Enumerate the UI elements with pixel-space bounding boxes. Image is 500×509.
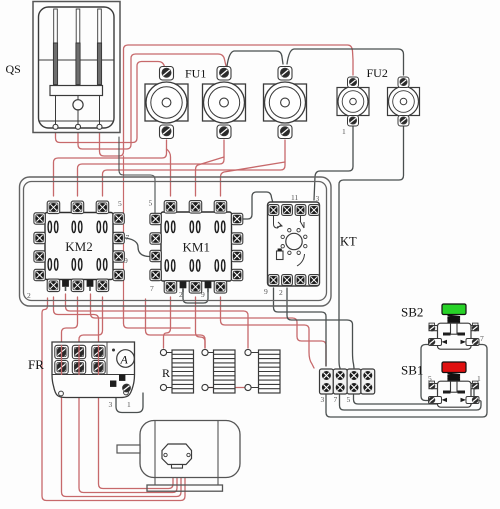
- motor shaft: [117, 445, 140, 453]
- KM2 bottom terminal 1: [47, 279, 60, 292]
- wire KT bottom 2 to XT strip3 (black): [287, 288, 354, 368]
- FR terminal top 3: [92, 345, 105, 358]
- KM2 label: [65, 239, 92, 254]
- wire KM2 bottom 3 to FR col3 (red): [79, 297, 103, 345]
- wire branch to KM1 top 2 (red): [196, 157, 225, 196]
- resistor R3: [245, 349, 280, 393]
- wire XT strip1 to SB2 lower right (black): [326, 345, 487, 418]
- wire long red vertical into band (red): [124, 305, 191, 328]
- terminal block XT: [320, 369, 375, 394]
- enclosure outer: [20, 177, 332, 306]
- svg-text:FR: FR: [28, 357, 44, 372]
- FU2 pin label 1: [342, 127, 346, 136]
- wire FU1-3 bottom to KM2 top 3 (red): [103, 140, 286, 196]
- SB1 lower contact right: [461, 397, 480, 404]
- svg-text:A: A: [120, 353, 129, 367]
- wire KM1 bottom 1 to R1 top (red): [164, 297, 171, 348]
- XT pin label 7: [334, 395, 338, 404]
- KM1 right terminal 4: [231, 269, 242, 280]
- KM1 right terminal 2: [231, 233, 242, 244]
- QS crossbar: [50, 86, 103, 96]
- svg-text:KM2: KM2: [65, 239, 92, 254]
- wire FU2-1 bottom to KT top 4 (black): [314, 125, 353, 200]
- wire KM2 stud run to R3 top (red): [66, 294, 249, 348]
- KM1 contact tips r1c1: [165, 221, 175, 232]
- KT top terminal 2: [282, 205, 293, 216]
- wire FR pass-through col2 (red): [78, 345, 80, 375]
- wire SB2 lower left to SB1 lower left (black): [421, 345, 431, 401]
- KM1 bottom aux stud 1: [180, 282, 187, 293]
- QS blade stems: [56, 96, 100, 125]
- button SB2 cap: [442, 304, 466, 315]
- fuse FU2-2: [388, 77, 420, 126]
- QS label: [6, 62, 21, 76]
- KM2 contact tips r1c1: [48, 221, 58, 232]
- QS handle circle: [73, 100, 83, 110]
- KT bottom hook: [297, 254, 305, 266]
- KT top terminal 4: [309, 205, 320, 216]
- KM1 contact tips r2c3: [215, 260, 225, 271]
- thermal relay FR body: [52, 342, 135, 398]
- motor cable gland: [172, 465, 183, 469]
- SB1 contact bridge: [443, 391, 465, 394]
- pin label 5: [149, 199, 153, 208]
- KM1 bottom aux stud 2: [205, 282, 212, 293]
- FR terminal top 2: [72, 345, 85, 358]
- motor terminal box: [162, 444, 192, 465]
- KT bottom terminal 4: [309, 275, 320, 286]
- contactor KM2 body: [45, 213, 113, 280]
- svg-text:7: 7: [480, 334, 484, 343]
- FU2 label: [367, 66, 388, 80]
- SB2 body: [438, 323, 472, 349]
- svg-text:FU1: FU1: [185, 67, 206, 81]
- wire QS L3 long vertical (red): [100, 45, 354, 156]
- SB1 spring: [448, 374, 461, 383]
- wire FR pass-through col1 (red): [61, 345, 63, 375]
- svg-text:2: 2: [179, 290, 183, 299]
- FR terminal bottom 3: [92, 361, 105, 374]
- KT contact symbol left: [274, 216, 283, 228]
- wire FR col2 to motor lead 2 (red): [79, 375, 177, 493]
- svg-text:KM1: KM1: [183, 240, 210, 255]
- QS blade 3: [97, 9, 101, 85]
- wire FU1-1 bottom to KM2 top 1 (red): [54, 140, 167, 196]
- SB2 spring: [448, 316, 461, 325]
- KT contact symbol right: [300, 216, 304, 228]
- KT bottom terminal 1: [268, 275, 279, 286]
- QS bottom terminal 2: [76, 124, 81, 129]
- XT pin label 5: [347, 395, 351, 404]
- svg-text:11: 11: [291, 193, 298, 202]
- KM2 contact tips r2c2: [72, 259, 82, 270]
- wire KT bottom 1 to XT strip1 (black): [274, 288, 327, 366]
- SB2 mounting plate: [429, 323, 479, 331]
- pin label 5: [118, 199, 122, 208]
- wire FR col1 to motor lead 3 (red): [62, 375, 182, 497]
- SB1 plate screws: [429, 383, 478, 389]
- svg-text:KT: KT: [340, 235, 357, 249]
- svg-text:3: 3: [316, 194, 320, 203]
- KM1 bottom terminal 2: [189, 281, 202, 294]
- QS blade 2: [76, 9, 80, 85]
- svg-text:SB1: SB1: [401, 363, 423, 378]
- KM1 top terminal 3: [214, 201, 227, 214]
- pin label 7: [126, 233, 130, 242]
- SB1 mounting plate: [429, 381, 479, 389]
- R label: [162, 366, 170, 380]
- KM2 contact tips r1c2: [72, 221, 82, 232]
- KM1 contact tips r1c3: [215, 221, 225, 232]
- FR terminal bottom 2: [72, 361, 85, 374]
- SB1 body: [438, 381, 472, 407]
- button SB1 cap: [442, 362, 466, 373]
- contactor KM1 body: [161, 212, 232, 281]
- motor seam lines: [155, 421, 218, 486]
- FR terminal top 1: [55, 345, 68, 358]
- FR terminal bottom 1: [55, 361, 68, 374]
- KM2 contact tips r2c1: [48, 259, 58, 270]
- KM2 bottom aux stud 1: [62, 280, 69, 291]
- wire FU1-2 bottom to KM2 top 2 (red): [78, 140, 225, 196]
- KT pin label 9: [264, 287, 268, 296]
- FR aux stud 1: [110, 381, 116, 387]
- wire KM1 bottom 2 to R2 top (red): [196, 297, 206, 348]
- QS bottom terminal 1: [53, 124, 58, 129]
- FR aux stud 2: [119, 375, 125, 381]
- wire KM1 bottom 3 to XT area (red): [221, 297, 315, 368]
- KM2 right terminal 1: [113, 213, 124, 224]
- wire FR col3 to motor lead 1 (red): [99, 375, 174, 489]
- FR pin label 1: [127, 400, 131, 409]
- KT top terminal 3: [295, 205, 306, 216]
- wire FR loop around screw (black): [116, 387, 143, 413]
- svg-text:5: 5: [428, 374, 432, 383]
- wire enclosure drop to motor lead 4 (red): [42, 298, 185, 501]
- FR pin label 3: [109, 400, 113, 409]
- SB1 pin label 5: [428, 374, 432, 383]
- KM2 left terminal 2: [34, 232, 45, 243]
- KM1 bottom terminal 3: [214, 281, 227, 294]
- SB1 stem: [451, 381, 458, 392]
- svg-text:1: 1: [477, 374, 481, 383]
- pin label 2: [179, 290, 183, 299]
- SB2 label: [401, 305, 423, 320]
- KM2 right terminal 2: [113, 232, 124, 243]
- FR feet: [59, 390, 129, 396]
- wire KM2 bottom 2 to FR col2 (red): [62, 297, 78, 345]
- resistor R2: [202, 349, 235, 393]
- svg-text:QS: QS: [6, 62, 21, 76]
- KM1 left terminal 1: [150, 213, 161, 224]
- SB2 lower contact left: [429, 339, 448, 346]
- KM1 left terminal 4: [150, 269, 161, 280]
- svg-text:9: 9: [124, 256, 128, 265]
- svg-text:9: 9: [201, 290, 205, 299]
- svg-text:3: 3: [321, 395, 325, 404]
- SB1 label: [401, 363, 423, 378]
- wire branch to KM1 top 1 (red): [167, 149, 171, 196]
- svg-text:5: 5: [149, 199, 153, 208]
- KM1 contact tips r1c2: [190, 221, 200, 232]
- KM1 top terminal 1: [164, 201, 177, 214]
- KM2 bottom terminal 3: [96, 279, 109, 292]
- KM1 bottom terminal 1: [164, 281, 177, 294]
- svg-text:3: 3: [109, 400, 113, 409]
- fuse FU1-2: [203, 67, 246, 139]
- KM2 left terminal 3: [34, 251, 45, 262]
- KM1 label: [183, 240, 210, 255]
- wire FR pass-through col3 (red): [98, 345, 100, 375]
- wire KM2-KM1 gap link 1 (black): [126, 238, 151, 257]
- wire KM1 right to KT top 1 (black): [242, 192, 273, 219]
- KT socket circle: [281, 229, 307, 255]
- wire QS to KM1 left terminal (black): [119, 137, 155, 213]
- svg-text:7: 7: [126, 233, 130, 242]
- FR label: [28, 357, 44, 372]
- wire QS L2 to FU1-2 top (red): [78, 54, 226, 149]
- SB2 stem: [451, 323, 458, 334]
- SB2 contact bridge: [443, 333, 465, 336]
- SB2 pin label 7: [480, 334, 484, 343]
- KT bottom terminal 3: [295, 275, 306, 286]
- fuse FU1-3: [264, 67, 307, 139]
- XT strip 4 screws: [363, 371, 372, 392]
- knife switch QS outer frame: [33, 2, 120, 133]
- KT coil box: [277, 249, 284, 260]
- wire XT strip3 to SB1 upper right (black): [354, 388, 475, 404]
- KM1 top terminal 2: [189, 201, 202, 214]
- fuse FU2-1: [337, 77, 369, 126]
- KM2 left terminal 4: [34, 269, 45, 280]
- FR indicator dot: [112, 349, 115, 352]
- KM2 bottom aux stud 2: [87, 280, 94, 291]
- wire KM1 aux stud link (black): [183, 293, 208, 303]
- wire R2 bottom link (red): [208, 387, 245, 389]
- FR adjust screw: [123, 384, 131, 392]
- KT pin label 3: [316, 194, 320, 203]
- wire branch to KM1 top 3 (red): [221, 162, 286, 196]
- KM2 top terminal 1: [47, 201, 60, 214]
- enclosure label 2: [27, 291, 31, 300]
- KM1 right terminal 3: [231, 250, 242, 261]
- pin label 7: [150, 284, 154, 293]
- wire gap drop to R2 (red): [146, 299, 206, 348]
- SB1 pin label 1: [477, 374, 481, 383]
- XT pin label 3: [321, 395, 325, 404]
- wire KM2 stud run to XT strip1 (red): [91, 294, 327, 366]
- KM1 left terminal 3: [150, 250, 161, 261]
- svg-text:7: 7: [334, 395, 338, 404]
- KM2 left terminal 1: [34, 213, 45, 224]
- wire FU2-2 bottom to XT strip2 (black): [339, 125, 404, 368]
- svg-text:7: 7: [150, 284, 154, 293]
- svg-text:9: 9: [264, 287, 268, 296]
- wire KM2 bottom 1 to FR col1 (red): [54, 297, 99, 345]
- svg-text:SB2: SB2: [401, 305, 423, 320]
- knife switch QS inner panel: [39, 7, 115, 128]
- SB2 lower contact right: [461, 339, 480, 346]
- KM2 top terminal 2: [71, 201, 84, 214]
- KM2 right terminal 3: [113, 251, 124, 262]
- KT top terminal 1: [268, 205, 279, 216]
- SB1 lower contact left: [429, 397, 448, 404]
- svg-text:5: 5: [118, 199, 122, 208]
- KM2 contact tips r2c3: [97, 259, 107, 270]
- KT pin label 2: [279, 288, 283, 297]
- KT bottom terminal 2: [282, 275, 293, 286]
- pin label 9: [124, 256, 128, 265]
- svg-text:2: 2: [279, 288, 283, 297]
- resistor R1: [160, 349, 193, 393]
- XT strip 1 screws: [322, 371, 331, 392]
- XT strip 2 screws: [336, 371, 345, 392]
- wire node red vertical mid (red): [123, 156, 125, 311]
- QS blade 1: [53, 9, 57, 85]
- FR ammeter dial A: [117, 350, 135, 368]
- motor base: [147, 485, 223, 491]
- KM1 right terminal 1: [231, 213, 242, 224]
- KT pin label 11: [291, 193, 298, 202]
- wire XT strip2 to SB1 lower right (black): [340, 395, 482, 410]
- SB2 plate screws: [429, 325, 478, 331]
- KM2 contact tips r1c3: [97, 221, 107, 232]
- KT label: [340, 235, 357, 249]
- time relay KT body: [268, 202, 320, 286]
- svg-text:5: 5: [347, 395, 351, 404]
- svg-text:2: 2: [27, 291, 31, 300]
- svg-text:1: 1: [342, 127, 346, 136]
- FU1 label: [185, 67, 206, 81]
- wire FU1-2 to FU1-3 top (black): [227, 51, 283, 66]
- KM1 contact tips r2c1: [165, 260, 175, 271]
- enclosure inner: [24, 182, 327, 301]
- KM2 bottom terminal 2: [71, 279, 84, 292]
- QS bottom terminal 3: [97, 124, 102, 129]
- KM1 left terminal 2: [150, 233, 161, 244]
- fuse FU1-1: [145, 67, 188, 139]
- svg-text:R: R: [162, 366, 170, 380]
- KM1 contact tips r2c2: [190, 260, 200, 271]
- motor body: [140, 421, 240, 478]
- svg-text:1: 1: [127, 400, 131, 409]
- wire FU1-3 to FU2-2 top (black): [287, 49, 404, 75]
- pin label 9: [201, 290, 205, 299]
- KM2 right terminal 4: [113, 269, 124, 280]
- KM2 top terminal 3: [96, 201, 109, 214]
- XT strip 3 screws: [350, 371, 359, 392]
- wire QS L1 to FU1-1 top (red): [56, 62, 167, 143]
- svg-text:FU2: FU2: [367, 66, 388, 80]
